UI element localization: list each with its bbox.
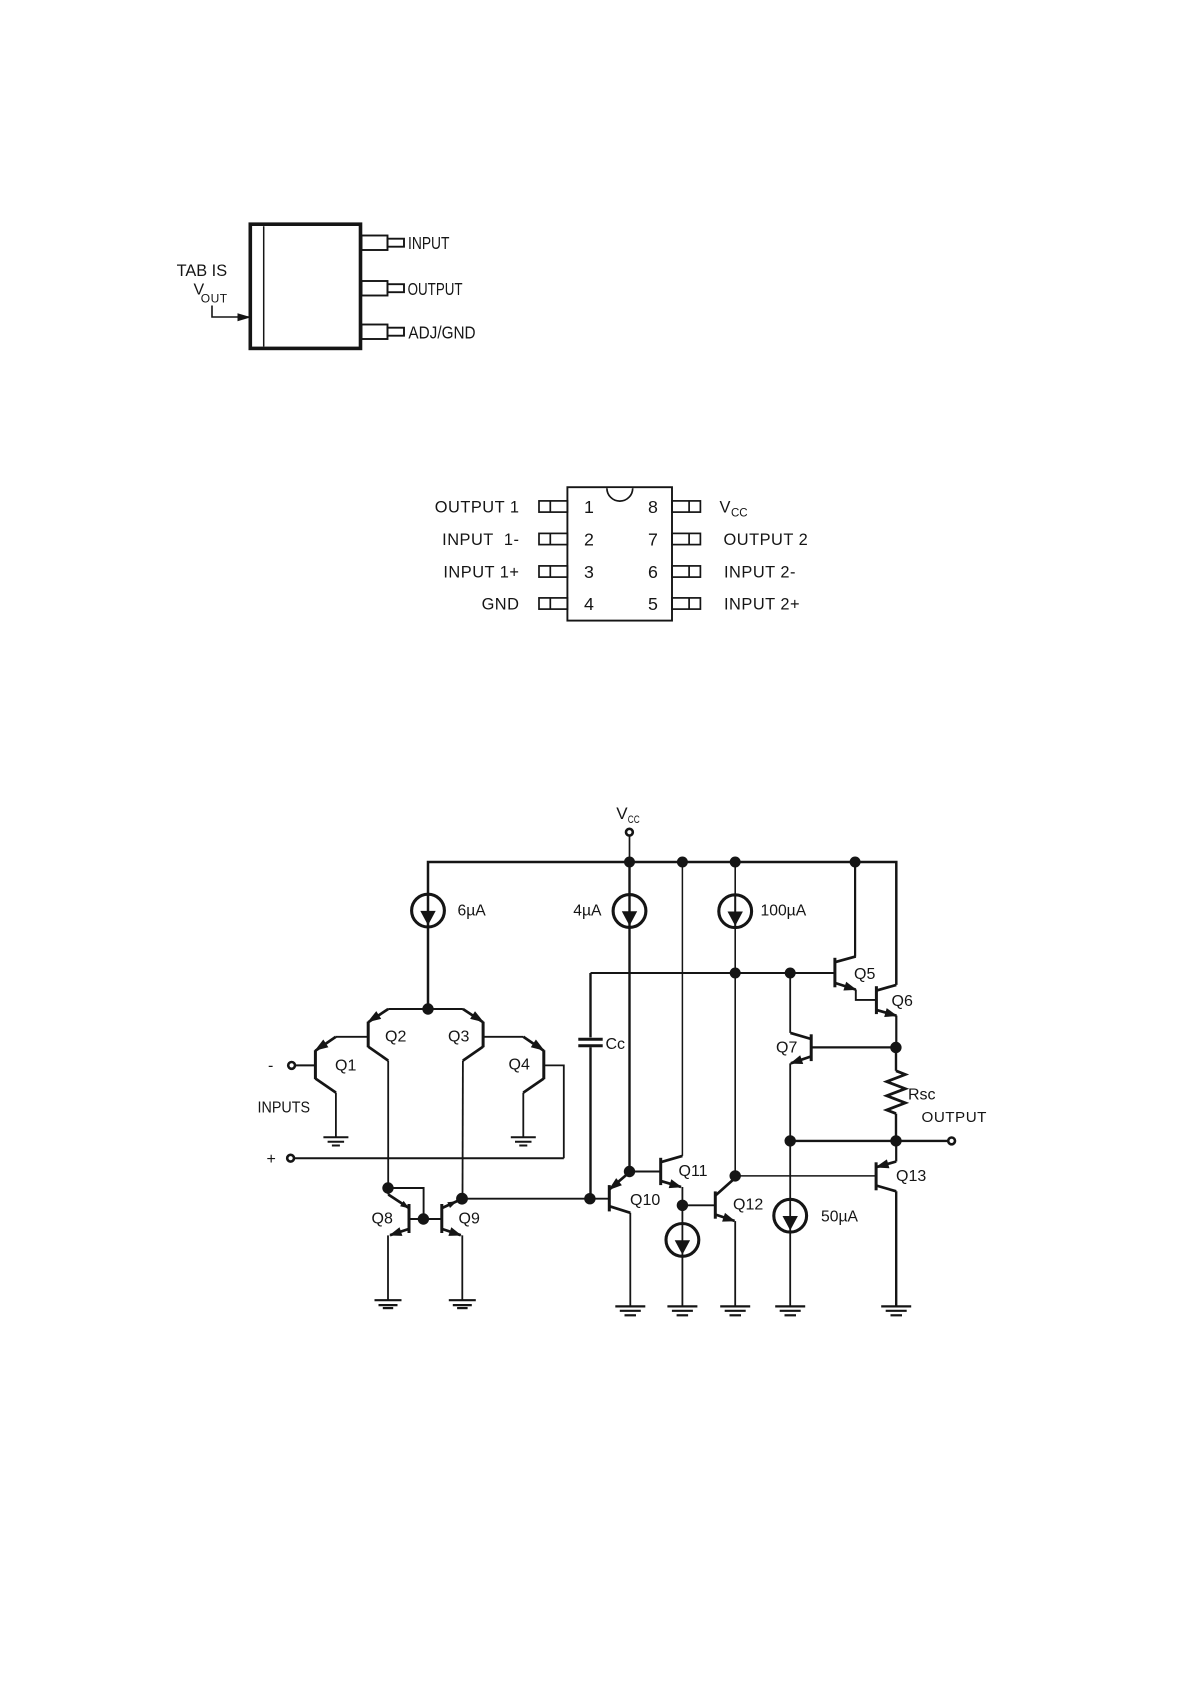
- wire Q4 base down to plus rail: [544, 1065, 564, 1158]
- node Q6-Q7-Rsc: [890, 1042, 901, 1053]
- svg-text:2: 2: [584, 530, 594, 550]
- transistor Q6: [875, 986, 878, 1014]
- svg-text:Q10: Q10: [630, 1192, 660, 1209]
- svg-text:INPUT 2-: INPUT 2-: [724, 563, 796, 581]
- pin 2 stub: [539, 533, 567, 544]
- DIP-8 package body: [567, 487, 672, 620]
- wire Q4 collector to ground: [522, 1093, 524, 1138]
- svg-text:-: -: [268, 1058, 273, 1075]
- node 4uA-Q10-Q11: [624, 1166, 635, 1177]
- svg-text:Q8: Q8: [372, 1211, 393, 1228]
- svg-text:4: 4: [584, 594, 594, 614]
- svg-text:Rsc: Rsc: [908, 1087, 936, 1104]
- node rail-Q5: [850, 857, 861, 868]
- node output-50uA: [785, 1135, 796, 1146]
- svg-text:Q6: Q6: [892, 993, 913, 1010]
- ground Q8: [375, 1300, 402, 1308]
- wire Q10 collector to ground: [629, 1213, 631, 1307]
- wire Q11 emitter column: [681, 1187, 683, 1205]
- ground current source Q11: [667, 1306, 697, 1315]
- node rail-Q11: [677, 857, 688, 868]
- node Cc bottom: [584, 1193, 595, 1204]
- node tail 6uA: [422, 1003, 433, 1014]
- ground Q13: [881, 1306, 911, 1315]
- current source 4uA: [613, 895, 646, 928]
- wire 100uA column: [734, 862, 736, 1176]
- inputs plus terminal: [287, 1155, 294, 1162]
- svg-text:Q7: Q7: [776, 1040, 797, 1057]
- wire Q13 emitter column: [895, 1141, 897, 1162]
- svg-text:Q5: Q5: [854, 966, 875, 983]
- svg-text:8: 8: [648, 497, 658, 517]
- transistor Q2: [367, 1022, 370, 1047]
- capacitor Cc plates: [578, 1038, 602, 1041]
- svg-text:INPUT: INPUT: [408, 233, 450, 253]
- svg-text:100µA: 100µA: [761, 902, 807, 919]
- svg-text:CC: CC: [731, 508, 748, 520]
- wire Q8 collector to base jumper: [388, 1188, 424, 1219]
- node Q8 base: [418, 1213, 429, 1224]
- ground 50uA: [775, 1306, 805, 1315]
- svg-text:CC: CC: [628, 814, 640, 826]
- inputs minus terminal: [288, 1062, 295, 1069]
- svg-text:V: V: [616, 804, 628, 823]
- wire Q1 base: [295, 1064, 315, 1066]
- capacitor Cc top lead: [589, 973, 591, 1037]
- transistor Q9: [440, 1204, 443, 1233]
- Vcc terminal: [626, 829, 633, 836]
- svg-text:Q11: Q11: [679, 1163, 708, 1180]
- current source 100uA: [719, 895, 752, 928]
- svg-text:Q2: Q2: [385, 1029, 406, 1046]
- transistor Q13: [875, 1162, 878, 1190]
- wire top supply rail: [428, 862, 896, 1009]
- pin 3 stub: [539, 566, 567, 577]
- svg-text:1: 1: [584, 497, 594, 517]
- wire Q7 emitter column: [789, 1063, 791, 1141]
- wire plus input row: [294, 1157, 564, 1159]
- wire Q5 collector column: [854, 862, 856, 957]
- current source 6uA: [412, 894, 445, 927]
- pin 5 stub: [672, 598, 700, 609]
- svg-text:Cc: Cc: [606, 1036, 626, 1053]
- svg-text:OUTPUT: OUTPUT: [408, 279, 463, 299]
- wire Q7 collector column: [789, 973, 791, 1033]
- wire tail node row: [388, 1008, 463, 1010]
- node Q3-Q9: [456, 1193, 468, 1205]
- svg-text:Q9: Q9: [459, 1211, 480, 1228]
- wire Q13 collector column: [895, 1191, 897, 1306]
- ground Q9: [449, 1300, 476, 1308]
- node Q2-Q8: [382, 1182, 393, 1193]
- svg-text:INPUT 1-: INPUT 1-: [442, 531, 519, 549]
- transistor Q12: [714, 1191, 717, 1218]
- wire Q3 collector column: [462, 1061, 464, 1199]
- svg-text:ADJ/GND: ADJ/GND: [408, 323, 475, 343]
- svg-text:OUTPUT 2: OUTPUT 2: [724, 531, 809, 549]
- node rail-4uA: [624, 857, 635, 868]
- transistor Q10: [608, 1185, 611, 1211]
- node Cc row 100uA: [730, 968, 741, 979]
- wire Q7 base row: [811, 1046, 896, 1048]
- svg-text:INPUT 2+: INPUT 2+: [724, 595, 800, 613]
- wire Q8-Q9 base row: [409, 1218, 442, 1220]
- svg-text:6µA: 6µA: [458, 902, 487, 919]
- pin 3 lead (ADJ/GND): [362, 325, 388, 340]
- ground Q4: [511, 1137, 536, 1145]
- svg-text:OUTPUT: OUTPUT: [922, 1109, 987, 1126]
- capacitor Cc bottom lead: [589, 1047, 591, 1199]
- transistor Q5: [833, 958, 836, 988]
- wire Q1 emitter to Q2 base: [336, 1036, 368, 1038]
- wire Q8 emitter to ground: [387, 1235, 389, 1300]
- pin 2 lead (OUTPUT): [362, 281, 388, 296]
- svg-text:Q4: Q4: [509, 1057, 530, 1074]
- wire Q1 collector to ground: [335, 1093, 337, 1138]
- wire Cc top row to Q5 base: [591, 972, 835, 974]
- wire Vcc stem: [629, 836, 631, 862]
- node Q11-cs-Q12: [677, 1200, 688, 1211]
- ground Q1: [323, 1137, 348, 1145]
- svg-text:Q3: Q3: [448, 1028, 469, 1045]
- wire Q12 emitter to ground: [734, 1221, 736, 1306]
- svg-text:V: V: [720, 498, 731, 516]
- svg-text:6: 6: [648, 562, 658, 582]
- wire Q2 collector column: [387, 1061, 389, 1188]
- pin 1 lead (INPUT): [362, 236, 388, 251]
- pin 7 stub: [672, 533, 700, 544]
- transistor Q1: [314, 1050, 317, 1079]
- transistor Q3: [482, 1022, 485, 1047]
- svg-text:+: +: [267, 1151, 276, 1168]
- wire Q5 emitter to Q6 base: [856, 990, 877, 1000]
- svg-text:50µA: 50µA: [821, 1209, 858, 1226]
- package tab inner line: [263, 226, 265, 346]
- svg-text:INPUT 1+: INPUT 1+: [443, 563, 519, 581]
- node rail-100uA: [730, 857, 741, 868]
- svg-text:GND: GND: [482, 595, 520, 613]
- svg-text:Q1: Q1: [335, 1058, 356, 1075]
- svg-text:Q12: Q12: [733, 1196, 763, 1213]
- current source below Q11: [681, 1205, 683, 1306]
- svg-text:7: 7: [648, 530, 658, 550]
- pin 1 stub: [539, 501, 567, 512]
- svg-text:4µA: 4µA: [573, 902, 602, 919]
- wire 4uA column: [628, 862, 630, 1172]
- transistor Q8: [408, 1204, 411, 1233]
- wire output row: [790, 1140, 948, 1142]
- wire Q13 base row: [735, 1175, 876, 1177]
- wire Q8 upper stub: [387, 1188, 389, 1195]
- svg-text:OUT: OUT: [201, 292, 228, 306]
- wire Q6 emitter column: [895, 1016, 897, 1048]
- ground Q12: [720, 1306, 750, 1315]
- wire Q9 collector row to Q10 base: [462, 1198, 609, 1200]
- tab pointer arrow: [212, 306, 250, 318]
- wire Q9 emitter to ground: [461, 1235, 463, 1300]
- pin 6 stub: [672, 566, 700, 577]
- package body (TO-252 tab outline): [250, 224, 360, 348]
- svg-text:INPUTS: INPUTS: [258, 1100, 311, 1117]
- svg-text:Q13: Q13: [896, 1168, 926, 1185]
- svg-text:OUTPUT 1: OUTPUT 1: [435, 498, 520, 516]
- node 100uA-Q12-Q13: [730, 1170, 741, 1181]
- wire Q3 base to Q4 emitter: [483, 1036, 523, 1038]
- wire Q12 base row: [682, 1204, 715, 1206]
- resistor Rsc: [895, 1048, 897, 1071]
- pin 8 stub: [672, 501, 700, 512]
- node Cc row Q7: [785, 968, 796, 979]
- index notch: [607, 488, 633, 501]
- svg-text:3: 3: [584, 562, 594, 582]
- transistor Q4: [542, 1050, 545, 1079]
- wire Q11 base row: [630, 1171, 661, 1173]
- svg-text:TAB IS: TAB IS: [177, 261, 228, 280]
- ground Q10: [615, 1306, 645, 1315]
- wire Q11 collector column: [681, 862, 683, 1156]
- transistor Q11: [659, 1158, 662, 1185]
- pin 4 stub: [539, 598, 567, 609]
- OUTPUT terminal: [948, 1138, 955, 1145]
- current source 50uA: [789, 1141, 791, 1307]
- svg-text:5: 5: [648, 594, 658, 614]
- transistor Q7: [810, 1034, 813, 1061]
- node output-Rsc: [890, 1135, 901, 1146]
